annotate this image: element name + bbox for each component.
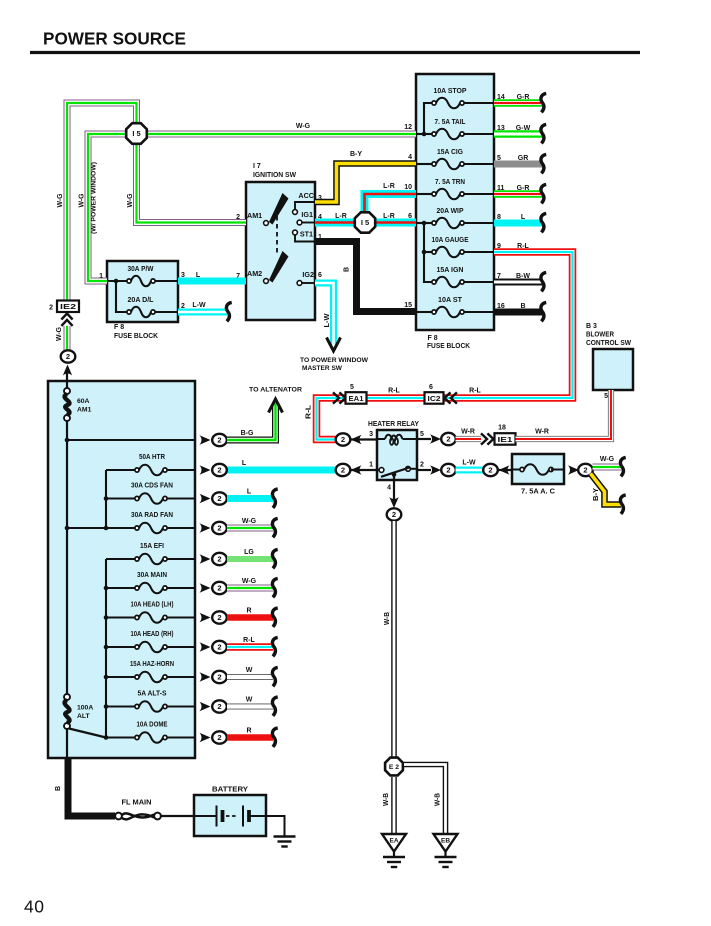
svg-text:BLOWER: BLOWER	[586, 332, 614, 339]
junction sub bus at y=617.5	[104, 615, 109, 620]
lead 10A ST to output pin	[464, 311, 494, 313]
wire LG row y=559	[227, 556, 273, 562]
svg-text:100A: 100A	[77, 705, 93, 712]
arrow into junction connector 2	[63, 365, 72, 376]
fusible link 60A AM1	[64, 388, 70, 421]
fuse 10A HEAD (RH)	[135, 642, 167, 653]
svg-text:3: 3	[369, 431, 373, 438]
relay coil lead right	[403, 438, 418, 440]
svg-text:R-L: R-L	[306, 404, 313, 419]
wire R row y=617.5	[227, 614, 273, 621]
junction sub bus at y=677	[104, 675, 109, 680]
A.C fuse box body	[512, 454, 564, 484]
svg-text:R: R	[246, 728, 251, 735]
row lead 50A HTR	[106, 469, 137, 471]
arrow to alternator	[269, 399, 283, 413]
svg-text:14: 14	[497, 94, 505, 101]
arrow out of block row B-G y=440	[200, 435, 211, 444]
wire W-G from fuse block F8 pin 1 up and across through I5 to fuse block F8 pin 12	[88, 134, 416, 281]
svg-text:15A IGN: 15A IGN	[437, 267, 464, 274]
pin 4 internal lead	[416, 163, 432, 165]
svg-text:2: 2	[341, 466, 345, 475]
row lead B-G (60A AM1 output)	[67, 439, 195, 441]
svg-text:L: L	[242, 460, 247, 467]
link ACC contact to case edge	[295, 202, 314, 210]
junction connector 2 row R y=737.5	[212, 731, 227, 743]
junction connector I5 (at ignition switch)	[355, 212, 375, 232]
blower control switch B3 body	[593, 349, 633, 390]
junction sub bus at y=647	[104, 645, 109, 650]
wire B-Y from ACC to fuse block pin 4	[315, 164, 416, 203]
svg-text:F 8: F 8	[114, 324, 124, 331]
svg-text:W: W	[246, 697, 253, 704]
svg-text:I 5: I 5	[361, 218, 369, 227]
svg-text:TO ALTENATOR: TO ALTENATOR	[249, 387, 302, 394]
terminal AM2 contact	[264, 279, 269, 284]
wire W-G from connector IE2 up across and down through I5 to ignition switch AM1	[67, 103, 246, 301]
arrow into junction connector	[351, 465, 362, 474]
svg-text:1: 1	[99, 273, 103, 280]
svg-text:2: 2	[66, 352, 70, 361]
relay contact right	[406, 466, 411, 471]
wire L-R from IG1 through I5 to fuse block pin 6	[315, 219, 416, 227]
svg-text:MASTER SW: MASTER SW	[302, 365, 343, 372]
svg-text:10A GAUGE: 10A GAUGE	[432, 237, 469, 244]
fuse 10A GAUGE	[432, 247, 464, 258]
svg-text:2: 2	[217, 733, 221, 742]
svg-text:FUSE BLOCK: FUSE BLOCK	[114, 333, 158, 340]
row lead 5A ALT-S	[106, 705, 137, 707]
connector IE1	[495, 433, 516, 445]
arrow into junction connector	[499, 465, 510, 474]
svg-text:2: 2	[217, 613, 221, 622]
arrow into junction connector	[351, 435, 362, 444]
svg-text:L-W: L-W	[462, 460, 476, 467]
wire break curl B-W	[541, 272, 546, 291]
wire L from 50A HTR fuse to heater relay pin 1	[227, 467, 336, 474]
svg-text:B: B	[344, 267, 351, 272]
wire R-L from fuse block pin 9 via IC2 and EA1 to heater relay	[317, 252, 573, 440]
junction sub bus at y=706.5	[104, 704, 109, 709]
lead 50A HTR to block edge	[167, 469, 195, 471]
junction pin12 bus	[422, 132, 427, 137]
svg-text:HEATER RELAY: HEATER RELAY	[368, 421, 419, 428]
svg-text:18: 18	[498, 425, 506, 432]
fusible link 100A ALT	[64, 694, 70, 729]
wire break curl R y=617.5	[272, 608, 277, 627]
wire L-W from fuse block pin 2	[178, 309, 227, 316]
svg-text:W-G: W-G	[600, 456, 615, 463]
pin 10 internal lead	[416, 193, 432, 195]
wire FL MAIN to battery	[161, 815, 194, 817]
svg-text:W-G: W-G	[242, 578, 257, 585]
svg-text:2: 2	[446, 435, 450, 444]
svg-text:5: 5	[420, 431, 424, 438]
lead 30A RAD FAN to block edge	[167, 527, 195, 529]
lead 7. 5A TRN to output pin	[464, 193, 494, 195]
svg-text:L: L	[521, 214, 526, 221]
svg-text:E 2: E 2	[389, 764, 399, 771]
svg-text:W-G: W-G	[127, 193, 134, 208]
junction connector 2 row W y=706.5	[212, 700, 227, 712]
lead 30A CDS FAN to block edge	[167, 497, 195, 499]
fuse block F8 (passenger side) body	[416, 74, 494, 330]
svg-text:W: W	[246, 667, 253, 674]
svg-text:B: B	[55, 786, 62, 791]
ground symbol EA	[383, 857, 405, 867]
ground symbol EB	[435, 857, 457, 867]
lead 10A STOP to output pin	[464, 102, 494, 104]
svg-text:B-W: B-W	[516, 273, 530, 280]
svg-text:2: 2	[446, 466, 450, 475]
fuse 15A CIG	[432, 159, 464, 170]
junction sub bus RAD FAN	[104, 526, 109, 531]
fuse block F8 pin1 internal lead	[107, 280, 127, 282]
svg-text:R-L: R-L	[469, 388, 481, 395]
svg-text:G-W: G-W	[516, 125, 531, 132]
arrow into junction connector 2 on W-R wire	[430, 434, 441, 443]
connector IE2	[57, 301, 79, 313]
ground stem EB	[444, 852, 446, 858]
terminal ST1 contact	[293, 230, 298, 235]
wire B-W output pin 7	[494, 279, 542, 286]
row lead 10A DOME	[106, 736, 137, 738]
svg-text:L-R: L-R	[383, 183, 395, 190]
fuse 30A CDS FAN	[135, 493, 167, 504]
fuse 10A HEAD (LH)	[135, 612, 167, 623]
svg-text:2: 2	[217, 466, 221, 475]
pin 12 internal lead	[416, 133, 432, 135]
svg-text:B: B	[520, 303, 525, 310]
svg-text:ACC: ACC	[298, 191, 314, 200]
svg-text:30A MAIN: 30A MAIN	[137, 572, 167, 579]
svg-text:2: 2	[217, 673, 221, 682]
wire L-W from junction to A.C fuse	[456, 467, 485, 474]
connector chevrons before IE1	[481, 433, 493, 444]
svg-text:2: 2	[341, 435, 345, 444]
wire G-R output pin 14	[494, 99, 542, 107]
pin 15 internal lead	[416, 311, 432, 313]
lead to 10A GAUGE	[424, 251, 432, 253]
arrow out of block row W y=677	[200, 672, 211, 681]
wire R row y=737.5	[227, 734, 273, 741]
svg-text:G-R: G-R	[517, 94, 530, 101]
link IG2 contact to case edge	[302, 282, 314, 284]
pin 6 internal lead	[416, 222, 432, 224]
svg-text:CONTROL SW: CONTROL SW	[586, 340, 631, 347]
lead to heater relay pin 1	[350, 469, 377, 471]
wire W-R from junction to chevrons	[456, 436, 482, 442]
junction connector 2 on W-R wire	[441, 433, 456, 445]
row lead 30A MAIN	[106, 587, 137, 589]
svg-text:4: 4	[408, 154, 412, 161]
wire break curl W-G	[620, 457, 625, 476]
svg-text:L-W: L-W	[324, 313, 331, 327]
svg-text:AM1: AM1	[247, 211, 262, 220]
row lead 30A CDS FAN	[106, 497, 137, 499]
junction connector 2 row W y=677	[212, 671, 227, 683]
terminal IG1 contact	[297, 220, 302, 225]
wire G-W output pin 13	[494, 130, 542, 138]
dashed link between AM1 and AM2 wedges	[276, 216, 278, 256]
wire B from ST1 to fuse block pin 15	[315, 242, 416, 312]
row lead 15A EFI	[106, 558, 137, 560]
svg-text:5: 5	[350, 384, 354, 391]
lead 20A WIP to output pin	[464, 222, 494, 224]
svg-text:7. 5A TAIL: 7. 5A TAIL	[435, 119, 467, 126]
svg-text:W-R: W-R	[461, 429, 475, 436]
connector chevrons after IC2	[445, 392, 457, 403]
junction connector 2 row W-G y=588	[212, 582, 227, 594]
junction sub bus at y=588	[104, 586, 109, 591]
svg-text:POWER SOURCE: POWER SOURCE	[43, 29, 186, 49]
svg-text:30A P/W: 30A P/W	[128, 266, 154, 273]
svg-text:AM2: AM2	[247, 269, 262, 278]
svg-text:(W/ POWER WINDOW): (W/ POWER WINDOW)	[91, 162, 98, 234]
arrow out of block row W-G y=528	[200, 523, 211, 532]
svg-text:20A D/L: 20A D/L	[128, 297, 155, 304]
svg-text:AM1: AM1	[77, 407, 92, 414]
junction sub bus DOME row	[104, 735, 109, 740]
relay pin1 lead	[377, 469, 380, 471]
svg-text:L: L	[196, 272, 201, 279]
svg-text:IG2: IG2	[302, 270, 314, 279]
svg-text:R: R	[246, 608, 251, 615]
battery internal lead left	[194, 815, 217, 817]
wire break curl B-Y	[620, 495, 625, 514]
connector IC2	[425, 392, 444, 404]
svg-text:20A WIP: 20A WIP	[437, 208, 464, 215]
wire break curl GR	[541, 154, 546, 173]
fusible link FL MAIN	[115, 813, 161, 820]
link ST1 contact to case edge	[295, 235, 314, 242]
svg-text:W-G: W-G	[79, 193, 86, 208]
wire R-L row y=647	[227, 643, 273, 651]
svg-text:6: 6	[429, 384, 433, 391]
relay contact left	[379, 468, 384, 473]
wire W-G row y=588	[227, 585, 273, 592]
svg-text:W-B: W-B	[384, 612, 391, 625]
internal bus to 15A IGN	[424, 223, 432, 282]
lead 15A HAZ-HORN to block edge	[167, 676, 195, 678]
ground point EA triangle	[382, 834, 406, 852]
lead to heater relay pin 3	[350, 438, 377, 440]
svg-text:2: 2	[217, 524, 221, 533]
svg-text:IG1: IG1	[301, 210, 313, 219]
terminal IG2 contact	[297, 281, 302, 286]
wire L row y=498.5	[227, 495, 273, 502]
relay coil	[385, 435, 402, 439]
svg-text:2: 2	[583, 466, 587, 475]
svg-text:2: 2	[392, 510, 396, 519]
wire break curl B	[541, 302, 546, 321]
ground stem EA	[393, 852, 395, 858]
svg-text:2: 2	[49, 305, 53, 312]
link IG1 contact to case edge	[302, 222, 314, 224]
junction connector 2 after A.C fuse	[578, 464, 593, 476]
fuse 7.5A TRN	[432, 189, 464, 200]
fuse 10A DOME	[135, 732, 167, 743]
lead 15A IGN to output pin	[464, 281, 494, 283]
svg-text:R-L: R-L	[388, 388, 400, 395]
svg-text:40: 40	[24, 897, 44, 917]
svg-text:7. 5A TRN: 7. 5A TRN	[435, 179, 465, 186]
title underline	[30, 51, 640, 54]
lead 7. 5A TAIL to output pin	[464, 133, 494, 135]
lead 10A HEAD (LH) to block edge	[167, 616, 195, 618]
relay pin2 lead	[410, 468, 417, 470]
wire G-R output pin 11	[494, 190, 542, 198]
svg-text:W-B: W-B	[383, 793, 390, 806]
wire B-Y output of A.C fuse	[591, 474, 622, 505]
junction in fuse block F8	[114, 279, 119, 284]
svg-text:IE2: IE2	[60, 304, 76, 311]
arrow out of block row W-G y=588	[200, 583, 211, 592]
svg-text:B-Y: B-Y	[350, 151, 362, 158]
lead 15A CIG to output pin	[464, 163, 494, 165]
svg-text:13: 13	[497, 125, 505, 132]
wire B from fusible link block to FL MAIN	[68, 757, 115, 816]
svg-text:2: 2	[217, 436, 221, 445]
svg-text:6: 6	[408, 213, 412, 220]
wire W-R from IE1 to blower control switch pin 5	[516, 390, 612, 439]
svg-text:W-G: W-G	[57, 193, 64, 208]
connector chevrons before EA1	[333, 392, 345, 403]
arrow out of block row L y=498.5	[200, 494, 211, 503]
svg-text:1: 1	[369, 462, 373, 469]
svg-text:10A ST: 10A ST	[438, 297, 463, 304]
wire break curl L	[541, 213, 546, 232]
switch wedge AM1	[269, 193, 289, 225]
svg-text:7: 7	[497, 273, 501, 280]
svg-text:IGNITION SW: IGNITION SW	[253, 172, 296, 179]
svg-text:B 3: B 3	[586, 323, 597, 330]
wire W-B from E2 to ground EB	[404, 765, 446, 835]
junction connector 2 row B-G y=440	[212, 434, 227, 446]
main bus middle	[66, 421, 68, 694]
junction connector 2 below IE2	[61, 350, 76, 362]
svg-text:R-L: R-L	[243, 637, 255, 644]
svg-text:50A HTR: 50A HTR	[139, 454, 165, 461]
svg-text:5A ALT-S: 5A ALT-S	[138, 691, 167, 698]
svg-text:15A HAZ-HORN: 15A HAZ-HORN	[130, 661, 174, 668]
fuse 30A P/W	[127, 276, 155, 287]
relay coil lead left	[377, 438, 385, 440]
svg-text:W-G: W-G	[56, 326, 63, 341]
junction connector 2 on L-W wire	[441, 464, 456, 476]
svg-text:2: 2	[488, 466, 492, 475]
svg-text:2: 2	[236, 214, 240, 221]
svg-text:5: 5	[604, 393, 608, 400]
svg-text:10A HEAD (LH): 10A HEAD (LH)	[131, 602, 174, 609]
svg-text:7. 5A A. C: 7. 5A A. C	[521, 489, 555, 496]
lead into A.C fuse box	[498, 469, 512, 471]
svg-text:B-Y: B-Y	[593, 488, 600, 501]
relay blade pivot	[392, 472, 397, 477]
wire break curl LG y=559	[272, 549, 277, 568]
svg-text:L-R: L-R	[335, 213, 347, 220]
internal bus to D/L fuse	[116, 281, 127, 312]
svg-text:15A CIG: 15A CIG	[437, 149, 464, 156]
svg-text:EA: EA	[389, 838, 398, 845]
main bus top	[66, 381, 68, 391]
fuse 50A HTR	[135, 465, 167, 476]
junction connector I5 (upper left)	[126, 123, 147, 144]
wire GR output pin 5	[494, 161, 542, 168]
ignition switch I7 body	[246, 182, 315, 320]
arrow out of block row R y=737.5	[200, 733, 211, 742]
lead 30A MAIN to block edge	[167, 587, 195, 589]
wire battery to ground	[266, 816, 285, 836]
junction main bus to RAD FAN row	[65, 526, 70, 531]
lead 30A P/W to pin 3	[155, 280, 178, 282]
terminal AM1 contact	[264, 221, 269, 226]
terminal ACC contact	[293, 210, 298, 215]
fuse 30A MAIN	[135, 583, 167, 594]
svg-text:GR: GR	[518, 155, 529, 162]
svg-text:2: 2	[217, 702, 221, 711]
svg-text:I 5: I 5	[132, 129, 140, 138]
arrow out of block row R-L y=647	[200, 642, 211, 651]
wire W-B from E2 to ground EA	[391, 777, 397, 834]
wire break curl R y=737.5	[272, 728, 277, 747]
svg-text:4: 4	[387, 485, 391, 492]
connector chevrons below IE2	[61, 314, 72, 326]
svg-text:10A STOP: 10A STOP	[434, 88, 467, 95]
svg-text:30A CDS FAN: 30A CDS FAN	[131, 483, 173, 490]
svg-text:L: L	[247, 489, 252, 496]
fuse 20A WIP	[432, 218, 464, 229]
junction connector 2 row L y=470	[212, 464, 227, 476]
wire break curl G-R	[541, 184, 546, 203]
A.C fuse lead left	[512, 469, 522, 471]
junction connector 2 row LG y=559	[212, 553, 227, 565]
wire W-G row y=528	[227, 525, 273, 532]
svg-text:10A HEAD (RH): 10A HEAD (RH)	[131, 631, 174, 638]
junction connector 2 at heater relay pin 1	[336, 464, 351, 476]
svg-text:W-B: W-B	[435, 793, 442, 806]
svg-text:L-R: L-R	[383, 213, 395, 220]
svg-text:FL MAIN: FL MAIN	[122, 800, 152, 807]
svg-text:ALT: ALT	[77, 713, 91, 720]
connector EA1	[346, 392, 367, 404]
wire break curl L-W	[226, 302, 231, 321]
svg-text:EA1: EA1	[349, 396, 364, 403]
svg-text:ST1: ST1	[300, 230, 313, 239]
arrow into junction connector 2 below heater relay	[389, 497, 398, 508]
svg-text:15: 15	[404, 302, 412, 309]
wire break curl R-L y=647	[272, 637, 277, 656]
fuse 7.5A A.C	[520, 464, 553, 475]
wire break curl W y=706.5	[272, 697, 277, 716]
junction connector 2 at heater relay pin 3	[336, 433, 351, 445]
svg-text:F 8: F 8	[428, 335, 438, 342]
svg-text:30A RAD FAN: 30A RAD FAN	[131, 512, 173, 519]
lead relay pin 2 to arrow	[417, 469, 431, 471]
junction main bus to B-G row	[65, 438, 70, 443]
arrow into junction connector 2 after A.C fuse	[568, 465, 579, 474]
svg-text:L-W: L-W	[192, 302, 206, 309]
row lead 10A HEAD (RH)	[106, 646, 137, 648]
svg-text:16: 16	[497, 303, 505, 310]
svg-text:10: 10	[404, 184, 412, 191]
wire B output pin 16	[494, 309, 542, 316]
svg-text:12: 12	[404, 124, 412, 131]
svg-text:TO POWER WINDOW: TO POWER WINDOW	[300, 357, 369, 364]
wire break curl W y=677	[272, 667, 277, 686]
wire W row y=677	[227, 674, 273, 680]
internal bus to 10A STOP	[424, 103, 432, 134]
